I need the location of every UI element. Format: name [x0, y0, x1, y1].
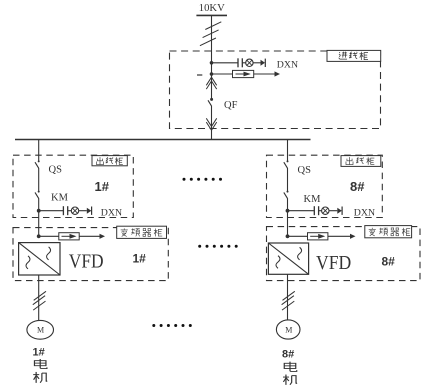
ellipsis dots row 2	[198, 245, 238, 248]
contactor KM (branch 1)	[38, 191, 40, 193]
wire	[79, 210, 87, 212]
wire	[253, 62, 260, 64]
svg-text:QF: QF	[224, 100, 238, 111]
wire: VFD to motor	[38, 275, 40, 321]
svg-text:QS: QS	[298, 165, 312, 176]
ellipsis dots row 1	[183, 178, 223, 181]
outgoing cabinet 1 label box 出线柜	[92, 156, 127, 166]
ellipsis dots row 3	[152, 324, 192, 327]
cable slash marks (3-phase) on incoming line	[200, 22, 221, 46]
wire with arrow	[79, 235, 101, 237]
svg-text:M: M	[285, 325, 292, 334]
capacitor	[62, 206, 64, 215]
svg-text:QS: QS	[49, 165, 63, 176]
node dot branch8 display row	[286, 234, 290, 238]
svg-text:8#: 8#	[382, 255, 396, 269]
wire	[68, 210, 72, 212]
wire with arrow end	[254, 73, 277, 75]
wire	[319, 210, 322, 212]
node dot branch1 DXN row	[37, 209, 41, 213]
incoming cabinet dashed enclosure	[170, 51, 381, 129]
breaker QF blade	[208, 100, 211, 106]
VFD converter box (branch 8)	[268, 243, 308, 274]
svg-text:DXN: DXN	[101, 207, 122, 218]
svg-text:M: M	[37, 326, 44, 335]
svg-text:DXN: DXN	[277, 60, 298, 71]
terminator (arrow + bar)	[261, 60, 266, 66]
wire	[288, 235, 308, 237]
motor M1 circle	[27, 320, 54, 339]
svg-text:8#: 8#	[282, 349, 294, 361]
outgoing cabinet 8 dashed enclosure	[267, 155, 383, 217]
wire: main incoming vertical	[211, 15, 213, 98]
node: junction dot 2 (display branch)	[210, 72, 214, 76]
outgoing cabinet 1 dashed enclosure	[13, 155, 133, 217]
cable slash marks (motor 1)	[33, 291, 46, 310]
svg-text:1#: 1#	[95, 179, 110, 194]
wire	[288, 210, 314, 212]
capacitor	[313, 206, 315, 215]
label 电 (motor 1)	[34, 359, 46, 369]
VFD cabinet 8 dashed enclosure	[267, 227, 421, 281]
wire: main vertical below QF	[211, 106, 213, 140]
label 机 (motor 1)	[33, 372, 47, 383]
terminator	[337, 208, 342, 214]
indicator lamp	[71, 207, 78, 214]
svg-text:8#: 8#	[350, 179, 365, 194]
small minus mark	[197, 74, 202, 76]
disconnector QS (branch 1)	[38, 160, 40, 162]
node dot branch8 DXN row	[286, 209, 290, 213]
breaker QF contact dot	[210, 98, 213, 101]
wire	[242, 62, 245, 64]
cable slash marks (motor 8)	[282, 291, 295, 310]
VFD converter box (branch 1)	[19, 243, 60, 275]
outgoing cabinet 8 label box 出线柜	[341, 156, 381, 167]
bus bar 10KV	[15, 139, 311, 141]
VFD cabinet 1 dashed enclosure	[13, 228, 168, 281]
node dot branch1 display row	[37, 234, 41, 238]
wire: branch 8 drop from bus	[287, 140, 289, 162]
svg-text:1#: 1#	[33, 347, 45, 359]
svg-text:10KV: 10KV	[199, 2, 225, 14]
label text 进线柜	[339, 52, 368, 60]
svg-text:1#: 1#	[133, 252, 147, 266]
node: junction dot 1 (lamp branch)	[210, 61, 214, 65]
svg-text:VFD: VFD	[316, 252, 351, 274]
disconnector QS (branch 8)	[287, 160, 289, 162]
label 机 (motor 8)	[283, 375, 297, 385]
wire	[39, 235, 59, 237]
live-display device box	[59, 233, 79, 240]
terminator	[87, 208, 92, 214]
drawout contact chevrons (lower, pointing down)	[206, 118, 216, 130]
VFD cabinet 8 label box 变频器柜	[365, 226, 412, 238]
motor M8 circle	[276, 320, 300, 339]
VFD cabinet 1 label box 变频器柜	[117, 226, 167, 238]
contactor KM (branch 8)	[287, 191, 289, 193]
capacitor (coupling)	[237, 58, 239, 67]
wire	[329, 210, 337, 212]
wire: VFD to motor	[287, 274, 289, 320]
svg-text:VFD: VFD	[69, 250, 104, 272]
wire: branch 1 drop from bus	[38, 140, 40, 162]
svg-text:DXN: DXN	[354, 207, 375, 218]
svg-text:KM: KM	[51, 192, 69, 203]
live-display device box	[308, 233, 328, 240]
indicator lamp	[322, 207, 329, 214]
live-display device box with arrow	[233, 70, 254, 77]
incoming cabinet label box 进线柜	[327, 50, 381, 61]
wire to capacitor	[212, 62, 238, 64]
wire	[39, 210, 63, 212]
wire to display box	[212, 73, 233, 75]
wire with arrow	[328, 235, 352, 237]
svg-text:KM: KM	[304, 194, 322, 205]
drawout contact chevrons (upper, pointing up)	[206, 77, 216, 89]
wire: 10KV terminal bar	[196, 14, 227, 16]
label 电 (motor 8)	[284, 362, 296, 372]
indicator lamp (circle-X)	[246, 59, 253, 66]
